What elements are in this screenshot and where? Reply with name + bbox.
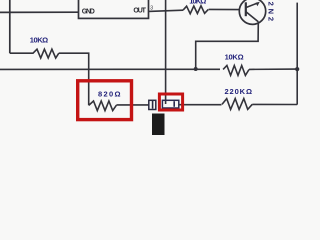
svg-text:10KΩ: 10KΩ xyxy=(225,53,244,62)
svg-text:OUT: OUT xyxy=(133,8,146,15)
resistor R2 10KΩ (top) xyxy=(183,6,208,14)
highlight box (820Ω) xyxy=(78,81,132,120)
wire: OUT pin to resistor xyxy=(149,10,184,11)
wire: long vertical from top through OUT wire down to diode box xyxy=(165,0,167,104)
wire: to 220K xyxy=(179,104,222,106)
resistor R1 10KΩ (left) xyxy=(10,49,59,58)
wire: resistor to transistor base xyxy=(209,8,240,10)
transistor Q1 (circle, top cropped) xyxy=(239,0,265,24)
svg-text:2N2: 2N2 xyxy=(267,2,276,22)
resistor R5 220KΩ xyxy=(222,99,252,110)
wire: 220K to right rail corner xyxy=(252,103,297,105)
wire: horizontal into GND pin xyxy=(0,11,79,13)
black bar (cropped object) xyxy=(152,114,165,136)
svg-text:10KΩ: 10KΩ xyxy=(30,35,49,44)
wire: collector down, left, down to junction xyxy=(196,22,259,69)
highlight box (diode) xyxy=(159,94,182,110)
node junction dot xyxy=(194,67,198,71)
wire: left resistor right lead and drop to 820 xyxy=(59,53,89,105)
resistor R4 10KΩ (middle right) xyxy=(223,66,249,76)
transistor emitter arrow xyxy=(246,3,258,8)
svg-text:3: 3 xyxy=(150,5,153,11)
diode D1 (symbol block inside highlight) xyxy=(162,100,178,108)
node junction dot right rail xyxy=(295,67,299,71)
connector block left xyxy=(149,100,156,109)
resistor R3 820Ω xyxy=(89,101,117,111)
wire: 820 to connector xyxy=(116,104,148,106)
svg-text:10KΩ: 10KΩ xyxy=(189,0,206,5)
wire: long horizontal bus xyxy=(0,68,220,70)
svg-text:820Ω: 820Ω xyxy=(98,89,121,98)
wire: resistor to right rail xyxy=(249,68,297,70)
transistor collector line xyxy=(246,12,258,22)
transistor base bar xyxy=(245,2,247,16)
svg-text:220KΩ: 220KΩ xyxy=(225,87,253,96)
op-amp U1 (IC box, top cropped) xyxy=(79,0,149,18)
svg-text:GND: GND xyxy=(82,8,95,15)
wire: right vertical rail xyxy=(296,3,298,105)
wire: vertical from top edge down to left resistor xyxy=(9,0,11,53)
